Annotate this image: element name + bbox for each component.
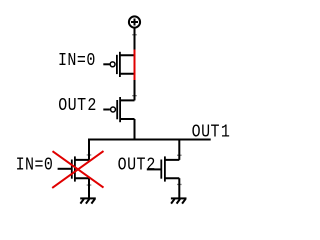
Q3 drain and source leads <box>75 160 89 178</box>
wire: Q1 source to Q2 drain <box>134 74 136 101</box>
Q4 drain and source leads <box>165 160 179 178</box>
wire: bus right drop to Q4 drain <box>178 140 180 160</box>
node OUT1 bus wire <box>88 139 211 141</box>
Q2 gate lead wire <box>103 109 110 111</box>
wire: Q2 source down to OUT1 bus <box>134 119 136 141</box>
wire joint on V+ stem <box>132 34 137 35</box>
Q1 gate plate <box>116 55 118 74</box>
Q1 gate lead wire <box>103 63 109 65</box>
Q1 drain and source leads <box>120 55 135 74</box>
svg-text:OUT2: OUT2 <box>118 155 156 176</box>
svg-text:IN=0: IN=0 <box>16 155 54 176</box>
Q2 gate bubble (PMOS inversion circle) <box>111 107 116 112</box>
wire: Q4 source to ground <box>178 178 180 198</box>
svg-text:OUT2: OUT2 <box>58 96 97 117</box>
wire joint on Q3 drain wire <box>87 154 92 155</box>
ground (right, under Q4) <box>171 198 187 203</box>
Q2 gate plate <box>116 100 118 119</box>
Q4 gate plate <box>160 160 162 179</box>
pmos Q2 (gate OUT2) <box>103 97 134 122</box>
nmos Q4 (gate OUT2) <box>147 156 180 181</box>
wire joint between Q1 and Q2 <box>132 95 137 96</box>
wire: Q3 source to ground <box>88 178 90 198</box>
wire joint on Q3 source wire <box>87 184 92 185</box>
svg-text:OUT1: OUT1 <box>192 122 231 143</box>
wire joint on Q4 drain wire <box>177 155 182 156</box>
wire: V+ stem to Q1 drain <box>134 28 136 56</box>
Q3 gate lead wire <box>58 168 72 170</box>
Q1 gate bubble (PMOS inversion circle) <box>110 62 115 67</box>
pmos Q1 (gate IN=0, conducting) <box>103 52 134 77</box>
ground (left, under Q3) <box>80 198 96 203</box>
Q3 channel plate <box>74 156 76 181</box>
Q3 gate plate <box>71 160 73 179</box>
wire: bus left drop to Q3 drain <box>88 140 90 160</box>
red X mark over Q3 (off transistor) <box>52 151 103 188</box>
svg-text:IN=0: IN=0 <box>58 51 96 72</box>
Q2 channel plate <box>119 97 121 122</box>
Q4 channel plate <box>164 156 166 181</box>
wire joint on Q4 source wire <box>177 184 182 185</box>
power supply V+ <box>129 16 140 27</box>
red ON-state channel bridge of Q1 <box>134 50 136 81</box>
Q2 drain and source leads <box>120 100 134 119</box>
Q4 gate lead wire (runs under the 2 of OUT2) <box>147 168 162 170</box>
Q1 channel plate <box>119 52 121 77</box>
nmos Q3 (gate IN=0, crossed out) <box>58 156 89 181</box>
